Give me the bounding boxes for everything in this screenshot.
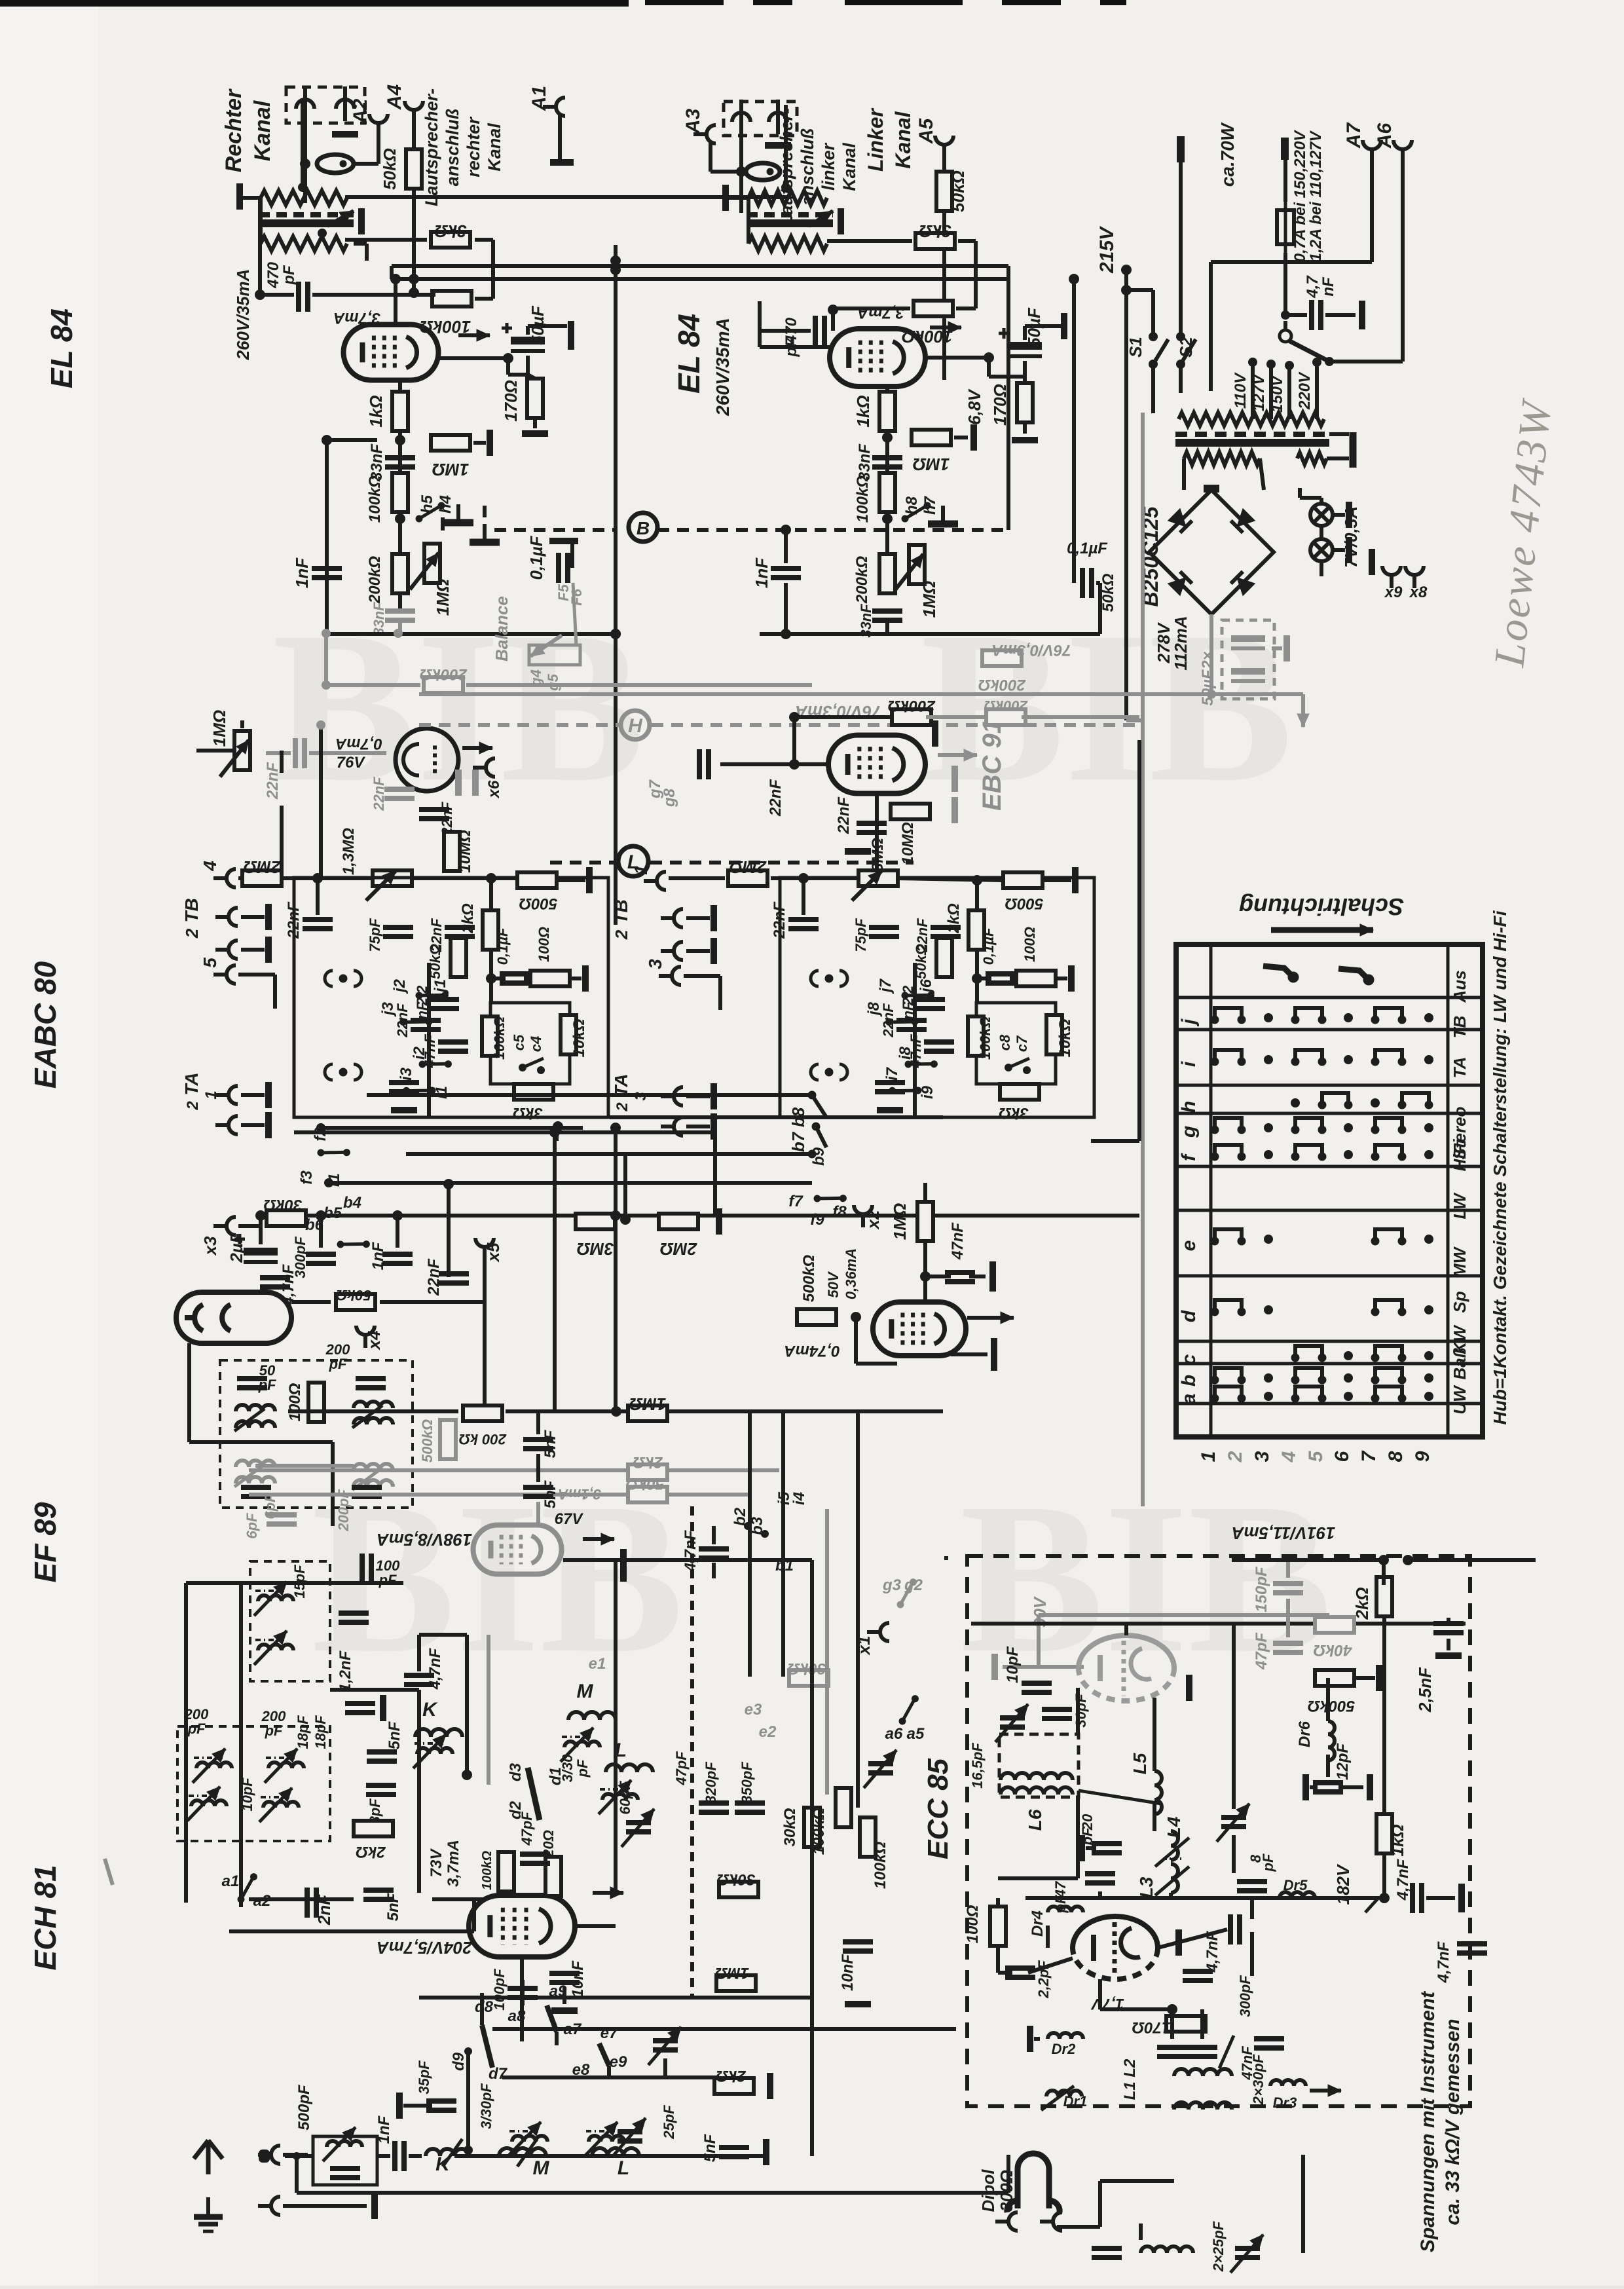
wire K row <box>330 1688 419 1692</box>
wire <box>377 136 380 164</box>
svg-text:1kΩ: 1kΩ <box>1388 1824 1407 1856</box>
wire under box right <box>610 1115 943 1119</box>
wire <box>1283 321 1287 331</box>
svg-text:Dr3: Dr3 <box>1273 2094 1297 2111</box>
connector x3 <box>213 1217 236 1235</box>
junction <box>920 1271 931 1282</box>
svg-text:S1: S1 <box>1126 337 1145 358</box>
svg-text:3kΩ: 3kΩ <box>434 221 466 241</box>
svg-text:33nF: 33nF <box>856 443 874 481</box>
table bridge symbol <box>1371 1368 1406 1384</box>
variable inductor 500pF <box>327 2141 362 2147</box>
svg-text:3: 3 <box>1251 1451 1273 1462</box>
wire <box>712 1526 716 1544</box>
capacitor bottom <box>1092 2248 1122 2258</box>
svg-text:b: b <box>1178 1375 1200 1386</box>
svg-text:A7: A7 <box>1343 122 1365 149</box>
balance pot grey <box>529 645 580 665</box>
wire y2155 left <box>288 1409 458 1413</box>
table bridge symbol <box>1291 1050 1326 1066</box>
capacitor 4,7nF out2 <box>1457 1944 1487 1953</box>
svg-text:L: L <box>618 2157 629 2179</box>
mains stub 1 <box>1177 136 1185 162</box>
junction <box>293 2152 301 2160</box>
wire <box>1338 1785 1363 1789</box>
wire <box>709 143 712 172</box>
junction <box>610 629 621 639</box>
wire <box>1086 1846 1096 1850</box>
wire 182V row <box>1025 1896 1383 1900</box>
table bridge symbol <box>1291 1008 1326 1024</box>
svg-text:L1 L2: L1 L2 <box>1121 2058 1139 2100</box>
wire A1 stub <box>558 115 562 160</box>
svg-text:i1: i1 <box>433 1086 451 1099</box>
switch contact <box>904 1049 938 1080</box>
lever e8 e9 <box>599 2043 609 2066</box>
junction <box>322 435 332 445</box>
wire <box>1300 496 1321 500</box>
junction <box>462 1770 472 1780</box>
resistor 2kΩ tuner <box>354 1821 393 1836</box>
svg-text:6pF: 6pF <box>244 1513 260 1539</box>
wire right vert <box>1137 740 1141 1141</box>
svg-text:d9: d9 <box>450 2052 468 2071</box>
svg-text:100Ω: 100Ω <box>286 1383 304 1421</box>
junction <box>395 435 405 445</box>
wafer contact <box>325 971 361 986</box>
svg-text:pF: pF <box>280 265 298 286</box>
antenna symbol <box>194 2140 223 2174</box>
triode anode arrow <box>462 742 492 754</box>
svg-text:nF: nF <box>414 1001 430 1019</box>
wire <box>377 2154 390 2158</box>
svg-text:50kΩ: 50kΩ <box>427 944 443 979</box>
wire <box>283 2153 308 2157</box>
grey HT bus <box>419 692 1211 696</box>
variable inductor M2 core <box>509 2130 538 2132</box>
wire y2155 <box>506 1409 943 1413</box>
connector <box>215 908 238 926</box>
table dot <box>1424 1373 1433 1383</box>
svg-text:2µF: 2µF <box>227 1232 246 1263</box>
wire <box>1209 614 1213 694</box>
svg-text:100Ω: 100Ω <box>536 927 552 962</box>
resistor 100kΩ tone <box>482 1016 498 1056</box>
wire triode2 out <box>1158 1929 1227 1948</box>
svg-text:2×: 2× <box>1199 651 1217 669</box>
capacitor 47nF ecc <box>1254 2039 1284 2048</box>
ground h4 <box>443 504 473 523</box>
connector x1 <box>867 1623 889 1641</box>
triode2 anode bar <box>1175 1929 1182 1956</box>
resistor 1kΩ right <box>879 392 895 431</box>
IF trimmer a <box>234 1409 265 1431</box>
svg-text:TA: TA <box>1450 1057 1469 1079</box>
wire bus join right <box>713 1132 717 1216</box>
table bridge symbol <box>1371 1386 1406 1402</box>
wire <box>925 1275 951 1278</box>
svg-text:g8: g8 <box>661 788 678 808</box>
wire <box>1182 458 1186 490</box>
wire <box>398 622 402 634</box>
svg-text:50V: 50V <box>825 1271 841 1297</box>
svg-text:e9: e9 <box>610 2053 627 2071</box>
connector A6 <box>1393 140 1412 162</box>
junction <box>1176 360 1185 369</box>
resistor 100kΩ <box>392 473 408 512</box>
svg-text:204V/5,7mA: 204V/5,7mA <box>377 1938 473 1958</box>
terminal bar <box>265 1112 272 1138</box>
svg-text:200kΩ: 200kΩ <box>888 697 936 715</box>
capacitor 2,5nF <box>1433 1624 1464 1633</box>
coil L6 a <box>1001 1773 1073 1780</box>
svg-text:0,74mA: 0,74mA <box>784 1342 840 1360</box>
coil L <box>606 1764 653 1772</box>
table row line <box>1176 1209 1483 1212</box>
grey wire IF <box>255 1464 354 1468</box>
anode arrow <box>458 329 490 341</box>
wire <box>686 1094 710 1098</box>
wire <box>473 441 486 445</box>
wire <box>1043 878 1071 882</box>
c8c7 lever <box>1008 1058 1029 1068</box>
tube EL84 left <box>344 325 439 381</box>
table bridge symbol <box>1371 1118 1406 1134</box>
wire <box>316 878 320 915</box>
junction <box>798 873 809 884</box>
svg-text:50kΩ: 50kΩ <box>380 148 399 190</box>
svg-text:5: 5 <box>200 958 220 968</box>
wire left branch <box>325 440 329 634</box>
resistor 200kΩ <box>392 554 408 593</box>
svg-text:M: M <box>577 1681 594 1702</box>
wire right vert 2 <box>781 1411 785 1677</box>
wire d8 up <box>480 1993 484 2025</box>
svg-text:35pF: 35pF <box>416 2060 432 2094</box>
wire <box>1283 253 1287 315</box>
potentiometer 1MΩ right <box>909 545 925 584</box>
capacitor 1nF ant <box>395 2141 404 2171</box>
svg-text:22nF: 22nF <box>371 777 387 811</box>
svg-text:ca.70W: ca.70W <box>1217 122 1238 187</box>
svg-text:3kΩ: 3kΩ <box>919 221 951 241</box>
wire <box>238 1224 262 1228</box>
capacitor 1nF right <box>771 568 801 578</box>
IF coil grey d <box>354 1480 393 1487</box>
wire ech cathode <box>520 1957 524 2041</box>
wire osc loop left <box>184 1583 188 1903</box>
switch contact <box>885 1006 919 1037</box>
capacitor 150pF grey <box>1273 1584 1303 1593</box>
wire osc loop top <box>186 1581 403 1585</box>
trimmer L ant arrow <box>613 2118 646 2156</box>
junction <box>1248 358 1257 367</box>
connector A3 <box>693 125 716 143</box>
svg-text:47pF: 47pF <box>673 1751 690 1786</box>
tube ECH81 <box>469 1895 575 1957</box>
svg-text:linker: linker <box>819 142 838 191</box>
choke Dr3 <box>1270 2080 1306 2086</box>
wire <box>758 301 762 347</box>
trimmer osc pad arrow <box>648 2027 681 2065</box>
junction <box>789 712 800 722</box>
svg-text:MW: MW <box>1450 1246 1469 1278</box>
trimmer osc pad <box>653 2041 678 2050</box>
svg-text:EF 89: EF 89 <box>28 1502 62 1582</box>
wire <box>526 326 530 335</box>
connector x4 <box>356 1326 375 1348</box>
switch contact <box>316 1137 351 1168</box>
svg-text:f9: f9 <box>810 1211 824 1229</box>
resistor 20Ω <box>545 1857 561 1896</box>
junction <box>1378 1555 1389 1565</box>
svg-text:18pF: 18pF <box>312 1715 329 1749</box>
svg-text:A4: A4 <box>384 84 405 111</box>
table bridge symbol <box>1371 1300 1406 1316</box>
wire <box>771 876 860 880</box>
junction <box>851 1312 861 1322</box>
resistor 500Ω <box>517 872 557 888</box>
tbar 500 <box>586 867 593 893</box>
variable inductor B3 <box>268 1762 304 1768</box>
trimmer 16,5pF <box>1000 1718 1025 1727</box>
switch S1 lever <box>1153 339 1168 364</box>
capacitor 100pF ef <box>362 1554 371 1584</box>
trimmer 2x25pF arrow <box>1230 2235 1263 2273</box>
wire <box>1211 692 1303 696</box>
junction <box>610 265 621 275</box>
wire <box>1250 1899 1254 1919</box>
connector <box>215 1086 238 1104</box>
wire <box>465 1635 469 1775</box>
wire antenna bus <box>454 2154 763 2158</box>
wire <box>1327 456 1349 460</box>
terminal bar <box>991 1338 997 1371</box>
wire <box>1319 561 1323 576</box>
wire K down <box>417 1690 421 1893</box>
wire <box>1329 360 1403 363</box>
svg-text:500Ω: 500Ω <box>1005 895 1043 912</box>
table bridge symbol <box>1371 1008 1406 1024</box>
wire <box>951 1352 987 1356</box>
wire <box>1260 458 1264 490</box>
svg-text:b7: b7 <box>788 1131 808 1152</box>
wire <box>410 876 517 880</box>
wire <box>885 622 889 634</box>
junction <box>610 1123 621 1133</box>
svg-text:x4: x4 <box>364 1330 384 1350</box>
wire <box>396 1216 399 1248</box>
variable inductor M2 <box>512 2136 547 2142</box>
table dot <box>1344 1055 1353 1064</box>
switch a1 a2 <box>230 1872 265 1904</box>
svg-text:100pF: 100pF <box>491 1969 507 2011</box>
svg-text:10nF: 10nF <box>569 1960 587 1998</box>
balance wiper arrow <box>530 635 562 656</box>
IF coil a <box>236 1405 275 1411</box>
resistor 100Ω tone right <box>1016 971 1056 986</box>
svg-text:ECH 81: ECH 81 <box>28 1865 62 1970</box>
svg-text:Sp: Sp <box>1450 1291 1469 1312</box>
jack plug symbol <box>317 155 354 173</box>
capacitor 22nF tone <box>445 927 475 937</box>
dashed speaker box right channel <box>286 87 365 123</box>
capacitor 47nF <box>438 1042 468 1051</box>
capacitor 30pF <box>1042 1709 1072 1719</box>
ground <box>928 506 958 524</box>
variable inductor box A1 <box>258 1595 293 1601</box>
junction <box>781 183 790 192</box>
svg-text:pF: pF <box>1260 1853 1276 1872</box>
wire <box>712 1563 716 1578</box>
wire ecc top bus <box>971 1622 1466 1626</box>
IF coil grey b <box>236 1477 275 1483</box>
potentiometer 1MΩ right wiper <box>895 554 923 591</box>
terminal bar <box>951 766 958 792</box>
diode 4 <box>1231 572 1255 596</box>
resistor 170Ω <box>527 379 543 418</box>
coil L1 <box>1174 2102 1232 2110</box>
connector <box>661 1117 683 1136</box>
variable inductor B3 core <box>266 1757 295 1759</box>
variable inductor M core <box>562 1736 591 1738</box>
wire <box>301 98 304 100</box>
wire <box>913 1107 917 1117</box>
wire <box>240 720 244 728</box>
potentiometer 1MΩ wiper <box>410 553 439 589</box>
svg-text:i4: i4 <box>790 1492 808 1505</box>
svg-text:b4: b4 <box>343 1194 361 1212</box>
svg-text:220V: 220V <box>1296 371 1314 410</box>
svg-text:c: c <box>1178 1354 1200 1365</box>
wafer contact r2 <box>811 1064 847 1080</box>
variable inductor 500pF core <box>324 2135 353 2138</box>
resistor 3kΩ tone <box>514 1084 553 1100</box>
svg-text:Aus: Aus <box>1450 970 1469 1003</box>
junction <box>464 2047 472 2055</box>
wire <box>553 1132 557 1411</box>
terminal bar <box>710 938 717 964</box>
svg-text:Dr6: Dr6 <box>1296 1721 1314 1747</box>
connector 5 <box>213 965 236 984</box>
wire <box>273 975 277 1009</box>
variable inductor B3 arrow <box>265 1749 297 1783</box>
wire <box>784 530 788 563</box>
svg-text:22nF: 22nF <box>394 1003 411 1038</box>
capacitor 20pF <box>1092 1844 1122 1853</box>
svg-text:j6: j6 <box>917 978 935 994</box>
bridge top terminal <box>1204 485 1219 493</box>
wire x1310 <box>856 1411 860 1808</box>
resistor 50kΩ grey mid <box>628 1487 667 1502</box>
wire <box>1370 162 1374 262</box>
svg-text:30kΩ: 30kΩ <box>787 1660 826 1677</box>
IF trimmer grey c <box>352 1468 382 1490</box>
wire <box>1211 260 1372 264</box>
capacitor 33nF <box>385 458 415 467</box>
capacitor 35pF b <box>426 2101 456 2110</box>
svg-text:215V: 215V <box>1096 225 1118 274</box>
wire <box>466 683 812 687</box>
grey bus y2282 <box>249 1493 750 1497</box>
182V arrow <box>1365 1899 1378 1912</box>
svg-text:Spannungen mit Instrument: Spannungen mit Instrument <box>1417 1990 1439 2252</box>
EF89 anode arrow <box>583 1533 614 1545</box>
terminal bar <box>970 424 977 451</box>
terminal bar <box>371 2193 378 2219</box>
table names column line <box>1447 944 1450 1437</box>
wire <box>266 751 291 755</box>
capacitor 0,1µF <box>559 553 568 583</box>
svg-text:2: 2 <box>614 1102 631 1112</box>
wire <box>827 239 912 243</box>
table dot <box>1424 1013 1433 1022</box>
resistor 3kΩ right <box>915 233 955 249</box>
tube EF89 <box>473 1525 562 1574</box>
wire <box>710 170 746 174</box>
wire <box>475 297 493 301</box>
wire <box>923 1241 927 1302</box>
table dot <box>1264 1373 1273 1383</box>
wire <box>885 386 889 494</box>
wire triode2 k down <box>1098 1979 1102 2009</box>
terminal bar <box>710 1113 717 1140</box>
resistor 200kΩ grey right <box>982 650 1022 666</box>
table outer frame <box>1176 944 1483 1437</box>
wire <box>526 356 530 375</box>
svg-text:500kΩ: 500kΩ <box>800 1255 818 1302</box>
wire <box>1325 313 1356 317</box>
variable inductor L <box>602 1794 638 1800</box>
capacitor 10pF <box>1022 1683 1052 1692</box>
junction <box>1281 310 1290 320</box>
svg-text:i7: i7 <box>883 1066 901 1081</box>
capacitor extra <box>339 1613 369 1622</box>
wire bus y1856 <box>275 1214 1139 1218</box>
tbar 0,1uF <box>549 538 578 544</box>
wire <box>1232 1835 1236 1873</box>
switch contact <box>402 1075 437 1106</box>
stub <box>944 1556 948 1560</box>
svg-text:b5: b5 <box>323 1204 342 1222</box>
resistor 200kΩ mid <box>463 1405 502 1421</box>
resistor 30kΩ grey <box>789 1670 828 1686</box>
switch lever <box>1289 341 1329 362</box>
trimmer 2x25pF <box>1235 2248 1260 2258</box>
svg-text:g5: g5 <box>545 673 561 691</box>
svg-text:2,5nF: 2,5nF <box>1415 1667 1435 1713</box>
connector 1 <box>644 872 666 890</box>
capacitor 1,2nF <box>345 1703 375 1713</box>
wire pad drop <box>663 2058 667 2077</box>
wire to ECH grid <box>472 1899 476 1931</box>
wire <box>282 876 375 880</box>
wire <box>536 1454 540 1482</box>
svg-text:500kΩ: 500kΩ <box>419 1419 435 1462</box>
wire x685 drop <box>447 1184 451 1277</box>
terminal bar <box>265 1082 272 1108</box>
connector A5 <box>935 136 953 158</box>
EBC91 anode arrow grey <box>938 749 977 761</box>
wire <box>1072 279 1076 583</box>
svg-text:2kΩ: 2kΩ <box>356 1843 386 1861</box>
svg-text:4,7: 4,7 <box>1304 275 1321 299</box>
trimmer osc 8pF arrow <box>1217 1804 1249 1842</box>
capacitor 33nF grey right <box>872 611 902 620</box>
variable inductor M <box>564 1741 600 1747</box>
wire <box>1023 361 1027 377</box>
switch f right <box>813 1183 847 1214</box>
